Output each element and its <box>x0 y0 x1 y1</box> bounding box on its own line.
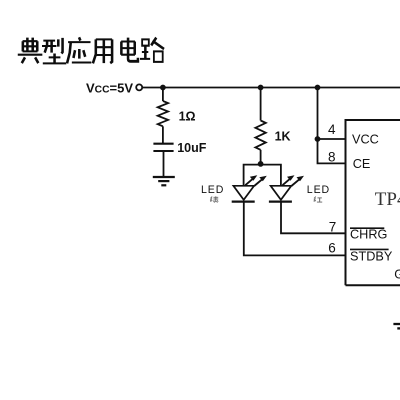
wire LED D2 cathode to CHRG pin7 <box>281 202 346 234</box>
label green char 绿 <box>210 196 218 202</box>
char yong <box>93 39 112 63</box>
svg-text:7: 7 <box>329 219 337 234</box>
node junction dot pin4 <box>315 136 321 142</box>
label VCC=5V <box>86 81 133 96</box>
node junction dot B (1K branch) <box>258 85 264 91</box>
wire LED anode bus <box>244 165 281 186</box>
terminal VCC input circle <box>136 84 142 90</box>
svg-text:CE: CE <box>353 157 371 171</box>
svg-text:1Ω: 1Ω <box>179 109 196 123</box>
svg-text:TP4056: TP4056 <box>375 189 400 210</box>
resistor 1K zigzag <box>255 121 265 150</box>
node junction dot LED bus <box>258 161 264 167</box>
LED D2 red symbol <box>269 186 292 202</box>
title 典型应用电路 <box>18 37 164 63</box>
char ying <box>67 37 91 63</box>
ground symbol <box>153 177 175 185</box>
wire pin4 down to CE pin8 <box>318 139 346 163</box>
svg-text:LED: LED <box>201 184 224 196</box>
wire C1 to ground <box>163 151 165 177</box>
overline STDBY <box>350 248 389 250</box>
char xing <box>42 38 66 64</box>
LED D2 light arrows <box>283 175 305 186</box>
label red char 红 <box>314 197 323 203</box>
svg-text:VCC=5V: VCC=5V <box>86 81 133 96</box>
wire IC box bottom <box>346 284 400 286</box>
wire LED D1 cathode to STDBY pin6 <box>244 202 346 256</box>
char lu <box>140 38 164 62</box>
LED D1 green symbol <box>232 186 255 202</box>
wire top rail <box>142 87 400 89</box>
char dian1 <box>18 38 43 64</box>
LED D1 light arrows <box>245 175 266 186</box>
wire R1 to C1 <box>162 126 164 143</box>
ground symbol battery (clipped at right edge) <box>393 324 400 328</box>
svg-text:8: 8 <box>328 149 336 164</box>
svg-text:LED: LED <box>307 184 330 196</box>
resistor 1R zigzag <box>158 101 168 126</box>
capacitor C1 plates <box>153 144 173 151</box>
svg-text:GND: GND <box>394 268 400 282</box>
node junction dot A (R1 branch) <box>160 85 166 91</box>
svg-text:10uF: 10uF <box>177 141 207 155</box>
op IC U1 TP4056 box <box>346 120 400 285</box>
svg-text:VCC: VCC <box>352 132 379 146</box>
svg-text:4: 4 <box>328 122 336 137</box>
char dian2 <box>121 38 138 62</box>
svg-text:1K: 1K <box>275 130 291 144</box>
node junction dot C (IC supply branch) <box>315 85 321 91</box>
overline CHRG <box>350 227 384 229</box>
wire rail to R1 <box>162 88 164 102</box>
svg-text:STDBY: STDBY <box>350 249 393 263</box>
wire rail to R2 <box>260 88 262 121</box>
wire pin4 stub <box>318 138 346 140</box>
wire R2 to LED bus <box>260 150 262 165</box>
wire rail down to VCC pin4 <box>317 88 319 140</box>
svg-text:CHRG: CHRG <box>350 227 387 241</box>
svg-text:6: 6 <box>328 241 336 256</box>
